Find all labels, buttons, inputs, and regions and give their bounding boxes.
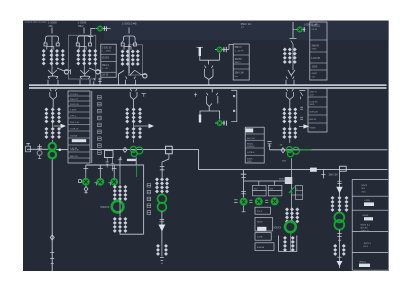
svg-text:1BZ: 1BZ <box>282 161 287 163</box>
CAD canvas <box>23 21 389 271</box>
table T8 divider 2 <box>352 195 388 197</box>
svg-text:35kV PT: 35kV PT <box>70 99 79 101</box>
tick QF4 right <box>226 121 228 126</box>
switch blade green F10 <box>289 187 295 193</box>
svg-text:L—35: L—35 <box>102 68 109 70</box>
wire T17 link <box>290 236 292 251</box>
svg-text:4-53C8 35kV SCADA: 4-53C8 35kV SCADA <box>25 21 47 24</box>
disconnector QS9a/QS9b <box>286 89 293 97</box>
breaker QD2 green <box>96 178 104 186</box>
transformer TG2 ring upper green <box>158 194 167 203</box>
wire QF1 left elbow <box>88 29 94 37</box>
transformer T3 winding chain 2 <box>126 50 130 66</box>
table T5 divider 1 <box>308 96 327 98</box>
transformer T19 winding b <box>338 196 342 212</box>
table T1 divider 3 <box>101 71 116 73</box>
transformer TG5 ring upper green <box>334 213 344 223</box>
transformer T19 winding c <box>345 196 349 212</box>
svg-text:GW4-35: GW4-35 <box>310 111 319 113</box>
transformer TG2 ring lower green <box>158 203 167 212</box>
table T6 divider 2 <box>245 139 264 141</box>
transformer T2 pad left <box>76 43 79 46</box>
table T4 divider 4 <box>310 69 327 71</box>
wire mid merge <box>205 77 214 85</box>
wire arrester hanger <box>197 46 204 48</box>
transformer T2 winding chain 2 <box>82 49 86 65</box>
transformer T9 winding c <box>138 127 142 139</box>
tick T5 b <box>300 117 303 119</box>
wire T5 arrow lead <box>299 125 303 127</box>
svg-text:N5XX: N5XX <box>279 179 285 181</box>
switch left end <box>37 144 41 150</box>
table T3 divider 2 <box>233 63 249 65</box>
table T6 divider 4 <box>245 154 264 156</box>
wire F1 drop <box>51 28 53 34</box>
svg-text:JDZX9: JDZX9 <box>235 59 243 61</box>
disconnector QS7a/QS7b <box>130 89 137 97</box>
svg-text:Um: Um <box>235 76 239 78</box>
transformer T2 winding chain 4 <box>93 49 97 65</box>
table T1 divider 1 <box>101 53 116 55</box>
tick under L1 <box>119 157 122 161</box>
svg-text:35kV II: 35kV II <box>235 47 243 49</box>
table box T2 <box>68 91 90 163</box>
disconnector QS2a/QS2b <box>80 77 90 85</box>
wire F5 drop <box>292 22 294 38</box>
svg-text:#F 35: #F 35 <box>312 29 318 31</box>
label box B1 <box>255 207 270 214</box>
wire T14 link <box>289 108 291 129</box>
transformer T14 winding a <box>282 107 286 123</box>
svg-text:1-53 M: 1-53 M <box>70 148 77 150</box>
table T8 divider 1 <box>352 178 388 180</box>
table T5 divider 4 <box>308 122 327 124</box>
hanger symbol L2 start <box>267 142 271 150</box>
svg-text:JDZX 9: JDZX 9 <box>364 243 372 245</box>
wire T6 link <box>52 108 54 129</box>
table T4 divider 2 <box>310 51 327 53</box>
tick QF1 right <box>106 26 108 31</box>
transformer T9 winding a <box>125 127 129 139</box>
svg-text:3150/3: 3150/3 <box>102 57 110 59</box>
transformer TG4 ring green <box>285 221 296 232</box>
table T2 divider 7 <box>68 130 90 132</box>
transformer T13 winding a <box>156 244 160 256</box>
table box T1 <box>101 44 116 77</box>
table T6 divider 3 <box>245 147 264 149</box>
svg-text:600/5A: 600/5A <box>257 246 264 249</box>
breaker QF3 green <box>295 27 305 33</box>
label box B2 <box>255 217 272 231</box>
vertical label V1 <box>98 96 102 155</box>
tick pair left of QD1 <box>78 180 81 183</box>
transformer T3 arm right <box>135 41 136 43</box>
transformer T11 winding b <box>118 217 122 233</box>
table T2 right rail <box>91 91 93 163</box>
table T2 divider 9 <box>68 144 90 146</box>
tap arrow F6 <box>61 124 67 129</box>
transformer T14 winding c <box>293 107 297 123</box>
transformer T3 centre wire <box>128 36 130 73</box>
breaker QF2 green <box>215 47 225 53</box>
wire T8 link <box>133 108 135 129</box>
wire F2 to bus <box>80 75 90 78</box>
breaker QD4 green <box>240 198 248 206</box>
bracket mark b <box>233 110 235 112</box>
svg-text:35/0.1: 35/0.1 <box>235 62 242 64</box>
breaker QD1 green <box>82 178 90 186</box>
wire F9 top <box>162 154 169 166</box>
transformer T17 winding a <box>283 236 287 252</box>
wire F1 branch ring lead <box>57 68 70 71</box>
wire L1 mid segment a <box>56 149 68 151</box>
wire F3 merge <box>119 71 135 85</box>
svg-text:0.5/6P: 0.5/6P <box>70 110 77 112</box>
tick mid small <box>194 93 197 97</box>
transformer T6 winding b <box>51 107 55 123</box>
table T3 divider 3 <box>233 68 249 70</box>
table box T6 <box>245 127 264 163</box>
transformer T3 pad right <box>133 43 136 46</box>
meter block F10 <box>285 177 293 184</box>
switch left end lower <box>38 155 41 158</box>
transformer T12 winding a <box>155 177 159 193</box>
svg-text:1—53 PT: 1—53 PT <box>235 50 245 52</box>
svg-text:1-53G 35: 1-53G 35 <box>102 47 112 49</box>
transformer T16 winding b <box>290 207 294 223</box>
tick QF2 right <box>225 47 227 52</box>
transformer T18 winding a <box>333 244 337 256</box>
transformer T17 winding b <box>291 236 295 252</box>
svg-text:LH-35: LH-35 <box>102 75 109 77</box>
wire D1 tail <box>242 206 246 212</box>
transformer T2 winding chain 3 <box>88 49 92 65</box>
label box F10 divider b <box>296 194 303 196</box>
disconnector stub PT1 <box>94 78 95 85</box>
label box on L3 <box>310 168 317 172</box>
wire mid drop <box>211 89 213 93</box>
transformer TG3 circle b green <box>287 151 293 157</box>
transformer T1 arm left <box>44 41 45 43</box>
transformer T16 winding a <box>285 207 289 223</box>
switch left of T5 <box>299 90 305 99</box>
label B2 block <box>257 227 266 231</box>
transformer T14 winding b <box>288 107 292 123</box>
transformer T2 arm left <box>77 41 78 43</box>
transformer G1 ring lower green <box>49 151 57 159</box>
reactor ring R1 green <box>112 201 124 213</box>
arrester ring F3 <box>143 74 147 78</box>
wire F6 merge <box>50 97 57 108</box>
label box B3 <box>255 233 271 241</box>
wire T12 link <box>161 193 163 195</box>
wire F3 fork <box>123 36 135 41</box>
tick F9 b <box>160 257 164 263</box>
transformer T12 winding c <box>165 177 169 193</box>
transformer T7 winding c <box>57 127 61 139</box>
transformer G1 ring upper green <box>49 143 56 150</box>
table T2 divider 4 <box>68 111 90 113</box>
tick F11 b <box>337 256 341 258</box>
transformer T15 winding a <box>282 127 286 139</box>
wire F3 branch ring lead <box>134 70 147 75</box>
vertical label V2 <box>147 184 151 215</box>
transformer T2 winding chain 1 <box>76 49 80 65</box>
wire drop Y3 <box>112 165 117 173</box>
component box on L1 <box>166 146 173 154</box>
svg-text:4#8: 4#8 <box>49 25 54 28</box>
transformer T11 winding a <box>113 217 117 233</box>
svg-text:35kV 2M: 35kV 2M <box>329 174 338 176</box>
wire T9 link <box>133 140 135 143</box>
wire L4 <box>244 180 292 182</box>
transformer T3 pad left <box>121 43 124 46</box>
wire QF1 lead <box>91 28 96 30</box>
svg-text:1C-53 II: 1C-53 II <box>70 94 78 96</box>
wire arrow lead F7 <box>134 125 149 127</box>
wire TG3 green tail <box>300 149 311 151</box>
transformer T15 winding b <box>288 127 292 139</box>
switch blade green dot <box>291 191 293 193</box>
transformer T6 winding c <box>57 107 61 123</box>
svg-text:1-53011: 1-53011 <box>312 25 321 27</box>
transformer T1 arm right <box>58 41 59 43</box>
tick F7 right <box>142 93 147 96</box>
table T8 divider 3 <box>352 209 388 211</box>
transformer T1 winding chain 3 <box>55 49 59 65</box>
wire F2 fork <box>78 36 91 41</box>
transformer T10 winding a <box>113 185 117 201</box>
transformer T3 winding chain 4 <box>136 50 140 66</box>
disconnector QS1a/QS1b <box>48 77 58 85</box>
wire F5 centre <box>292 44 294 70</box>
svg-text:3150: 3150 <box>312 49 318 51</box>
svg-text:N5XX 6-2: N5XX 6-2 <box>361 224 371 226</box>
joint diamond left feeder <box>50 235 54 240</box>
disconnector stub PT2 <box>98 78 101 85</box>
svg-text:Y5WZ: Y5WZ <box>310 127 317 129</box>
table T2 divider 1 <box>68 95 90 97</box>
table T2 divider 8 <box>68 137 90 139</box>
label box B4 <box>255 243 274 251</box>
relay box D3 b <box>268 191 282 196</box>
wire L1 mid segment b <box>90 149 198 151</box>
svg-text:LZZB: LZZB <box>257 237 263 239</box>
svg-text:RW-35: RW-35 <box>310 119 318 121</box>
table T4 divider 3 <box>310 62 327 64</box>
joint diamond L2 <box>281 148 285 153</box>
breaker QF4 green <box>215 120 225 126</box>
svg-text:JDZX-35: JDZX-35 <box>70 104 79 106</box>
instrument drop b <box>111 158 115 172</box>
transformer T15 winding c <box>293 127 297 139</box>
transformer T9 winding b <box>132 127 136 139</box>
disconnector QS3a/QS3b <box>126 77 136 85</box>
tick F8 top <box>118 159 122 161</box>
wire QD1 stub <box>85 173 87 179</box>
svg-text:LCW-35: LCW-35 <box>312 58 321 60</box>
CAD canvas light band <box>104 21 389 41</box>
wire sub-bus Y <box>86 164 144 166</box>
wire mid bay drop <box>208 60 210 64</box>
table T8 divider 6 <box>352 269 388 271</box>
label box F10 <box>296 186 303 200</box>
wire F2 merge <box>80 70 89 76</box>
table T8 block r2 <box>364 202 374 206</box>
joint diamond L1 <box>123 147 127 152</box>
table T4 divider 1 <box>310 39 327 41</box>
transformer T7 winding a <box>44 127 48 139</box>
tick left feeder 2 <box>51 263 54 265</box>
wire mid bay <box>200 53 220 60</box>
tick F11 a <box>337 234 341 241</box>
svg-text:XGN-10: XGN-10 <box>247 146 255 148</box>
pointer tick F10 <box>292 194 296 196</box>
table T2 divider 2 <box>68 100 90 102</box>
tick left of QD5 <box>249 200 252 202</box>
table T6 white block <box>246 128 254 132</box>
terminal box left <box>26 143 31 152</box>
wire QF3 lead <box>293 29 295 31</box>
indicator ring left grey <box>37 151 42 156</box>
svg-text:LCW-35: LCW-35 <box>310 101 319 103</box>
earth arrow F11 end <box>337 261 343 267</box>
transformer T5 chain b <box>288 48 292 64</box>
bracket mark a <box>233 95 235 97</box>
svg-text:6kV 1M: 6kV 1M <box>247 138 255 140</box>
transformer T7 winding b <box>51 127 55 139</box>
tick T5 a <box>300 107 303 109</box>
transformer T1 winding chain 4 <box>61 49 65 65</box>
table T2 divider 10 <box>68 151 90 153</box>
node dot L1 <box>59 149 62 152</box>
fuse capsule FU1 <box>199 47 201 56</box>
instrument drop a <box>105 158 109 168</box>
arrester ring F2 <box>96 70 100 74</box>
earth arrow F9 <box>159 225 166 232</box>
transformer T16 winding c <box>295 207 299 223</box>
wire F11 mid <box>339 197 341 213</box>
transformer TG3 circle a green <box>286 147 292 153</box>
breaker QD6 green <box>271 197 279 205</box>
wire F10 below <box>291 158 293 221</box>
svg-text:N5XX: N5XX <box>362 185 368 187</box>
wire QD2 stub <box>99 173 101 179</box>
fuse capsule FU2 <box>199 115 201 123</box>
transformer TG1 circle b green <box>131 151 137 157</box>
wire F1 fork <box>46 36 59 41</box>
table T2 divider 6 <box>68 124 90 126</box>
disconnector QS6a/QS6b <box>50 89 57 97</box>
tick left of QD6 <box>265 200 268 202</box>
svg-text:35kV: 35kV <box>78 25 84 28</box>
transformer T6 winding a <box>44 107 48 123</box>
table box T3 <box>233 44 249 80</box>
table T2 highlight row <box>72 139 86 142</box>
transformer T1 centre wire <box>51 36 53 73</box>
transformer TG1 circle a green <box>130 146 136 152</box>
svg-text:600/5: 600/5 <box>247 158 253 160</box>
table T1 divider 2 <box>101 61 116 63</box>
transformer T3 winding chain 3 <box>131 50 135 66</box>
transformer T11 winding c <box>123 217 127 233</box>
svg-text:150/5: 150/5 <box>312 67 318 69</box>
svg-text:LZZB-6: LZZB-6 <box>247 152 255 154</box>
bus W1 main <box>29 84 387 86</box>
transformer T1 pad left <box>44 43 47 46</box>
junction tick L3 <box>321 170 325 179</box>
svg-text:1YH-a: 1YH-a <box>70 116 77 118</box>
wire QF1 right <box>104 28 111 30</box>
svg-text:GN19: GN19 <box>363 215 369 217</box>
wire QD3 stub <box>113 173 115 179</box>
wire drop D1 <box>241 170 247 198</box>
wire main left feeder <box>51 160 53 272</box>
bus W2 main <box>29 87 387 89</box>
relay box D2 b <box>253 191 267 196</box>
transformer T18 winding b <box>342 244 346 256</box>
transformer T8 winding b <box>132 107 136 123</box>
svg-text:LZZB-35: LZZB-35 <box>70 129 79 131</box>
svg-text:35kV-B: 35kV-B <box>312 45 320 47</box>
tick left feeder 1 <box>50 253 54 259</box>
table T8 block r3 <box>364 217 373 220</box>
transformer T13 winding b <box>164 244 168 256</box>
table T8 divider 5 <box>352 251 388 253</box>
svg-text:35kV X: 35kV X <box>310 91 318 93</box>
arrester ring F1 <box>64 70 68 74</box>
table T2 divider 3 <box>68 105 90 107</box>
transformer T3 winding chain 1 <box>121 50 125 66</box>
svg-text:35kV 1U: 35kV 1U <box>241 22 252 26</box>
transformer T8 winding c <box>138 107 142 123</box>
transformer T2 arm right <box>90 41 91 43</box>
wire T15 link <box>289 139 291 143</box>
transformer TG5 ring lower green <box>334 220 344 230</box>
wire F2 branch ring lead <box>89 68 101 71</box>
transformer T5 chain c <box>293 48 297 64</box>
transformer T3 arm left <box>122 41 123 43</box>
svg-text:LZZB: LZZB <box>365 200 371 202</box>
enclosure box F3 <box>128 45 142 75</box>
transformer T12 winding b <box>160 177 164 193</box>
tap arrow F7 <box>149 124 155 129</box>
transformer T10 winding c <box>123 185 127 201</box>
wire F3 drop <box>128 28 130 34</box>
table T5 divider 2 <box>308 106 327 108</box>
svg-text:1-53010 #B: 1-53010 #B <box>122 22 137 26</box>
bracket right mid <box>231 90 237 121</box>
breaker QF1 green <box>96 26 106 32</box>
bracket enclosure right <box>137 165 144 234</box>
disconnector QS5a/QS5b <box>286 77 294 85</box>
wire QF2 up right <box>223 45 234 50</box>
transformer T1 winding chain 1 <box>42 49 46 65</box>
bracket U T17 <box>279 236 297 252</box>
transformer T2 bracket <box>79 47 86 50</box>
disconnector QS8a/QS8b <box>207 93 218 104</box>
corner mark QD3 <box>109 183 111 186</box>
wire F8 bottom to bracket <box>120 232 144 235</box>
wire F11 lower <box>339 230 341 268</box>
wire F5 merge <box>288 70 295 77</box>
table T3 divider 1 <box>233 54 249 56</box>
breaker QD3 green <box>110 178 118 186</box>
svg-text:N501XX: N501XX <box>101 206 110 209</box>
tick F1 branch <box>70 69 72 74</box>
svg-text:35kV-1: 35kV-1 <box>102 65 110 67</box>
wire T7 link <box>52 140 54 143</box>
